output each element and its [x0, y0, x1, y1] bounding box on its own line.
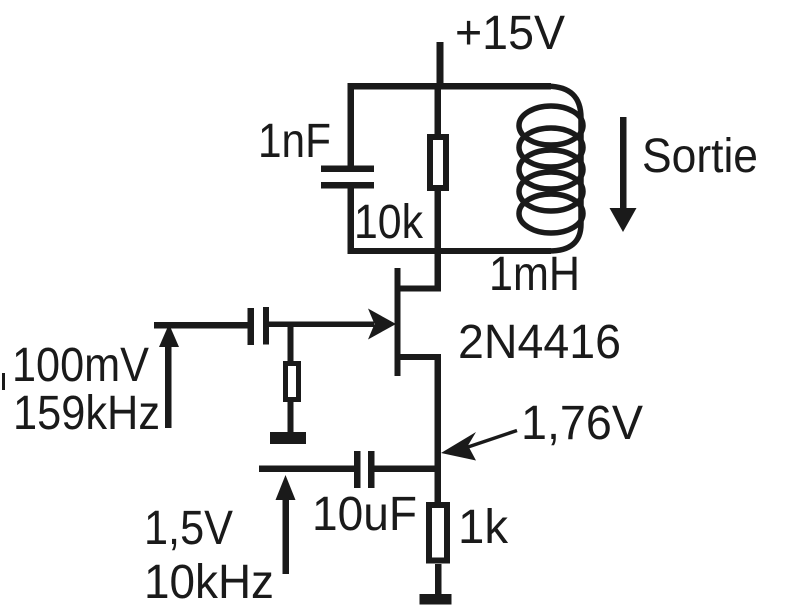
arrow source 1,5V: [276, 475, 296, 574]
transistor Q1 gate arrow: [368, 309, 396, 340]
wire top tank rail: [349, 83, 551, 90]
svg-text:1mH: 1mH: [489, 248, 580, 301]
edge artifact mark: [2, 373, 5, 390]
arrow pointer 1,76V: [441, 431, 517, 461]
wire 10k bottom lead: [435, 191, 442, 252]
wire 1nF top lead: [348, 83, 355, 167]
resistor gate bias: [286, 364, 299, 400]
arrow input source 100mV: [159, 324, 179, 428]
svg-text:1k: 1k: [458, 501, 509, 554]
wire gate resistor bottom lead: [288, 402, 294, 433]
svg-text:+15V: +15V: [455, 7, 565, 60]
svg-text:1,5V: 1,5V: [144, 502, 233, 555]
svg-text:100mV: 100mV: [12, 339, 149, 392]
transistor Q1 source lead: [397, 354, 441, 504]
wire bottom tank rail: [349, 248, 551, 254]
inductor L1 1mH: [519, 86, 583, 251]
transistor Q1 drain lead: [397, 250, 441, 292]
wire 1k bottom lead: [435, 564, 442, 595]
wire source bypass left segment: [259, 466, 354, 473]
wire gate input right segment: [268, 322, 374, 328]
svg-text:10kHz: 10kHz: [144, 556, 274, 609]
svg-text:2N4416: 2N4416: [458, 316, 621, 369]
svg-text:Sortie: Sortie: [642, 130, 758, 183]
svg-text:1nF: 1nF: [258, 115, 331, 168]
svg-text:10uF: 10uF: [312, 488, 417, 541]
wire 10k top lead: [435, 86, 442, 137]
wire +15V stub: [437, 42, 444, 89]
wire 1nF bottom lead: [348, 188, 355, 254]
capacitor 10uF: [354, 451, 375, 488]
transistor Q1 2N4416 channel bar: [395, 268, 401, 376]
capacitor input coupling: [248, 307, 270, 345]
wire gate resistor top lead: [288, 325, 294, 361]
resistor 10k: [430, 137, 446, 188]
svg-text:10k: 10k: [354, 196, 424, 249]
svg-text:159kHz: 159kHz: [13, 387, 160, 440]
resistor 1k: [429, 505, 447, 561]
wire gate input left segment: [154, 322, 248, 329]
arrow Sortie output: [610, 117, 637, 232]
ground gate bias: [270, 432, 306, 444]
ground source: [420, 594, 452, 605]
svg-text:1,76V: 1,76V: [521, 397, 643, 450]
capacitor 1nF: [321, 166, 374, 189]
wire source bypass right segment: [375, 466, 439, 473]
